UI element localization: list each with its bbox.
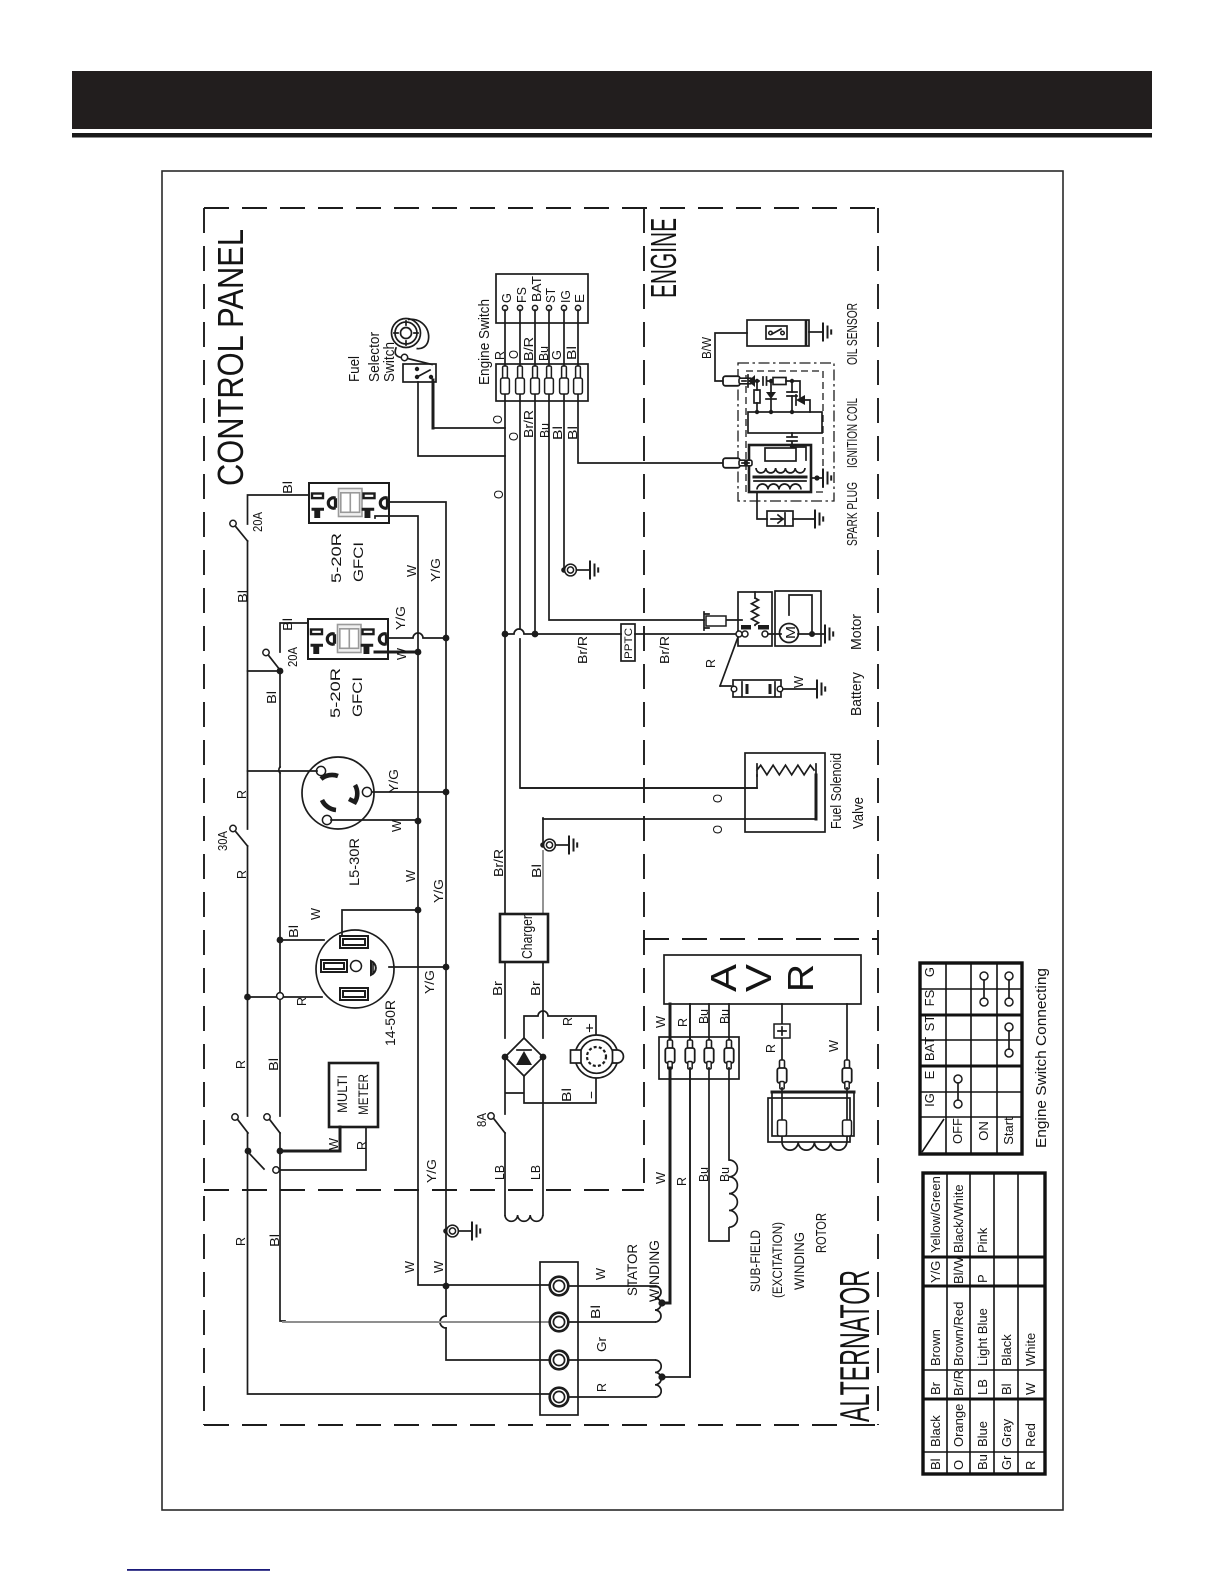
LB wires bbox=[505, 1057, 543, 1215]
PPTC box bbox=[621, 624, 635, 661]
svg-text:W: W bbox=[402, 1260, 417, 1273]
cap below module bbox=[787, 433, 806, 460]
svg-text:Gr: Gr bbox=[999, 1455, 1014, 1470]
fuel selector micro switch body bbox=[403, 364, 436, 382]
svg-text:Y/G: Y/G bbox=[428, 558, 443, 582]
svg-text:R: R bbox=[675, 1018, 690, 1027]
engine dashed bottom edge bbox=[644, 938, 878, 940]
svg-text:R: R bbox=[1023, 1461, 1038, 1470]
svg-text:R: R bbox=[703, 659, 718, 668]
svg-text:STATOR: STATOR bbox=[624, 1244, 640, 1296]
MM breaker right (Bl) bbox=[270, 1120, 280, 1133]
table2 outer border bbox=[923, 1173, 1045, 1474]
svg-text:R: R bbox=[233, 1060, 248, 1069]
GFCI outlet #2 bbox=[308, 619, 388, 659]
solenoid coil zigzag bbox=[757, 764, 816, 776]
svg-text:OIL SENSOR: OIL SENSOR bbox=[844, 303, 861, 365]
svg-text:Red: Red bbox=[1023, 1423, 1038, 1447]
14-50R outlet bbox=[316, 930, 394, 1008]
svg-text:Br/R: Br/R bbox=[657, 636, 672, 664]
svg-text:Bl/W: Bl/W bbox=[951, 1256, 966, 1284]
svg-text:GFCI: GFCI bbox=[350, 542, 366, 582]
svg-text:Yellow/Green: Yellow/Green bbox=[928, 1176, 943, 1253]
svg-text:Y/G: Y/G bbox=[422, 970, 437, 994]
ignition transformer bbox=[749, 445, 811, 492]
svg-text:Bl: Bl bbox=[264, 691, 279, 704]
svg-text:Bl: Bl bbox=[565, 426, 580, 440]
svg-text:MULTI: MULTI bbox=[334, 1075, 350, 1113]
wires below connector bbox=[690, 1068, 729, 1377]
svg-text:O: O bbox=[951, 1460, 966, 1470]
svg-text:Bl: Bl bbox=[550, 426, 565, 440]
8A breaker bbox=[494, 1119, 505, 1133]
svg-text:G: G bbox=[499, 293, 514, 303]
svg-text:LB: LB bbox=[492, 1165, 507, 1180]
GFCI2 feed wire bbox=[280, 623, 308, 1321]
svg-text:Switch: Switch bbox=[381, 342, 398, 382]
svg-text:Bl: Bl bbox=[564, 346, 579, 360]
svg-text:O: O bbox=[490, 415, 505, 424]
wire1 O bbox=[504, 395, 506, 914]
dashed top edge bbox=[204, 207, 878, 209]
fuse on Bu wire bbox=[704, 612, 726, 630]
svg-text:R: R bbox=[234, 790, 249, 799]
svg-text:Bu: Bu bbox=[696, 1167, 711, 1182]
svg-text:20A: 20A bbox=[250, 512, 265, 532]
header dark bar bbox=[72, 71, 1152, 129]
svg-text:Y/G: Y/G bbox=[928, 1261, 943, 1283]
solenoid leads bbox=[521, 775, 757, 788]
svg-text:Bl: Bl bbox=[266, 1058, 281, 1071]
W thick tap bbox=[662, 1004, 670, 1303]
svg-text:14-50R: 14-50R bbox=[382, 1000, 398, 1046]
node dots bbox=[277, 937, 284, 944]
alternator dashed bottom edge bbox=[204, 1424, 878, 1426]
svg-text:5-20R: 5-20R bbox=[328, 533, 344, 583]
svg-text:W: W bbox=[389, 819, 404, 832]
svg-text:Engine Switch: Engine Switch bbox=[476, 299, 493, 385]
svg-text:30A: 30A bbox=[215, 831, 230, 851]
svg-text:Brown: Brown bbox=[928, 1329, 943, 1366]
svg-text:METER: METER bbox=[355, 1074, 371, 1115]
svg-text:Light Blue: Light Blue bbox=[975, 1308, 990, 1366]
svg-text:Br: Br bbox=[928, 1381, 943, 1395]
svg-text:Br: Br bbox=[528, 980, 543, 996]
svg-text:W: W bbox=[431, 1260, 446, 1273]
svg-text:W: W bbox=[791, 675, 806, 688]
CDI module bbox=[723, 375, 822, 460]
svg-text:−: − bbox=[583, 1091, 599, 1099]
svg-text:BAT: BAT bbox=[922, 1037, 937, 1061]
GFCI outlet #1 bbox=[309, 483, 389, 523]
wires below charger bbox=[505, 962, 543, 1038]
wire5 G to ground bbox=[563, 395, 565, 567]
chassis ground on Y/G bbox=[443, 1228, 449, 1234]
svg-text:LB: LB bbox=[975, 1379, 990, 1395]
B/W wire bbox=[715, 333, 747, 381]
svg-text:W: W bbox=[826, 1039, 841, 1052]
svg-text:Orange: Orange bbox=[951, 1404, 966, 1447]
svg-text:Black: Black bbox=[928, 1415, 943, 1447]
battery R wire bbox=[720, 637, 738, 686]
svg-text:ON: ON bbox=[976, 1121, 991, 1141]
svg-text:IG: IG bbox=[922, 1093, 937, 1107]
svg-text:R: R bbox=[492, 351, 507, 360]
wire4 Bu bbox=[549, 395, 742, 620]
AVR wires down bbox=[690, 1004, 729, 1040]
vertical resistor bbox=[756, 381, 758, 412]
svg-text:IGNITION COIL: IGNITION COIL bbox=[844, 398, 861, 468]
fuel selector lever + roller bbox=[395, 348, 401, 358]
svg-text:Y/G: Y/G bbox=[431, 879, 446, 903]
svg-text:E: E bbox=[922, 1070, 937, 1079]
table1 inner horizontals bbox=[920, 989, 1022, 1117]
rectifier diamond bbox=[505, 1038, 543, 1076]
svg-text:ST: ST bbox=[922, 1015, 937, 1032]
header underline bbox=[72, 133, 1152, 138]
svg-text:Gray: Gray bbox=[999, 1418, 1014, 1447]
gray Bl wire + ground bullet at charger bbox=[542, 851, 544, 914]
GFCI2 right wires bbox=[389, 633, 446, 638]
svg-text:R: R bbox=[560, 1017, 575, 1026]
LB winding bbox=[505, 1215, 543, 1221]
oil sensor bbox=[747, 320, 831, 346]
svg-text:W: W bbox=[308, 907, 323, 920]
svg-text:Bl: Bl bbox=[280, 618, 295, 631]
svg-text:ALTERNATOR: ALTERNATOR bbox=[831, 1270, 878, 1422]
stator terminal block bbox=[540, 1262, 578, 1415]
svg-text:FS: FS bbox=[922, 989, 937, 1006]
MULTI METER box bbox=[329, 1063, 378, 1127]
fuel solenoid valve box bbox=[745, 753, 825, 832]
svg-text:O: O bbox=[506, 350, 521, 359]
svg-text:Bu: Bu bbox=[975, 1454, 990, 1470]
ignition inner dashed box bbox=[746, 371, 823, 492]
battery bbox=[731, 680, 783, 697]
ignition outer dash-dot box bbox=[738, 363, 834, 501]
spark plug bbox=[767, 511, 793, 526]
svg-text:W: W bbox=[404, 564, 419, 577]
diagonal cell bbox=[922, 1119, 944, 1152]
svg-text:Bl: Bl bbox=[267, 1234, 282, 1247]
svg-text:OFF: OFF bbox=[950, 1118, 965, 1144]
svg-text:Bl: Bl bbox=[999, 1383, 1014, 1395]
svg-text:V: V bbox=[738, 964, 779, 992]
svg-text:Engine Switch Connecting: Engine Switch Connecting bbox=[1033, 968, 1050, 1148]
svg-text:ENGINE: ENGINE bbox=[643, 218, 684, 298]
svg-text:CONTROL PANEL: CONTROL PANEL bbox=[210, 229, 251, 486]
node dots on W / Y-G verticals bbox=[443, 635, 450, 642]
svg-text:W: W bbox=[653, 1171, 668, 1184]
svg-text:Y/G: Y/G bbox=[386, 769, 401, 793]
svg-text:O: O bbox=[710, 825, 725, 834]
sub-field winding bbox=[729, 1160, 737, 1241]
svg-text:LB: LB bbox=[528, 1165, 543, 1180]
svg-text:IG: IG bbox=[558, 290, 573, 303]
14-50R wires bbox=[342, 910, 418, 936]
MM breaker left (R) bbox=[238, 1120, 248, 1133]
svg-text:Fuel Solenoid: Fuel Solenoid bbox=[828, 753, 845, 829]
table2 row lines (verticals in portrait) bbox=[947, 1173, 1018, 1474]
svg-text:Battery: Battery bbox=[848, 672, 865, 716]
svg-text:ST: ST bbox=[543, 288, 558, 303]
ignition input bullet bbox=[723, 458, 752, 468]
engine dashed right edge bbox=[877, 208, 879, 1425]
svg-text:W: W bbox=[403, 869, 418, 882]
svg-text:R: R bbox=[780, 964, 821, 992]
svg-text:Black/White: Black/White bbox=[951, 1184, 966, 1253]
Br/R horizontal to engine bbox=[505, 629, 739, 634]
svg-text:G: G bbox=[549, 350, 564, 360]
svg-text:Brown/Red: Brown/Red bbox=[951, 1302, 966, 1366]
L5-30R wires bbox=[248, 770, 318, 772]
AVR connector box bbox=[659, 1037, 739, 1079]
svg-text:Br: Br bbox=[490, 980, 505, 996]
svg-text:W: W bbox=[394, 647, 409, 660]
svg-text:R: R bbox=[234, 870, 249, 879]
GFCI1 right wires bbox=[389, 502, 550, 1360]
breaker 30A bbox=[236, 832, 248, 846]
brushes bbox=[778, 1120, 787, 1136]
svg-text:WINDING: WINDING bbox=[791, 1232, 807, 1290]
hop of x446 over gray y1322 bbox=[440, 1316, 446, 1328]
svg-text:(EXCITATION): (EXCITATION) bbox=[769, 1222, 785, 1298]
charger box bbox=[500, 914, 548, 962]
svg-text:M: M bbox=[783, 626, 798, 639]
svg-text:O: O bbox=[710, 794, 725, 803]
svg-text:Motor: Motor bbox=[848, 614, 865, 650]
rectifier to DC outlet wires bbox=[524, 1011, 596, 1038]
svg-text:R: R bbox=[763, 1044, 778, 1053]
rotor winding bbox=[782, 1136, 847, 1150]
svg-text:Bl: Bl bbox=[235, 590, 250, 603]
table2 column lines (horizontals) bbox=[923, 1370, 1045, 1452]
page frame bbox=[162, 171, 1063, 1510]
wire3 Br/R bbox=[534, 395, 536, 634]
svg-text:+: + bbox=[581, 1023, 597, 1033]
DC charging outlet bbox=[571, 1035, 624, 1078]
svg-text:Y/G: Y/G bbox=[424, 1159, 439, 1183]
svg-text:L5-30R: L5-30R bbox=[346, 838, 362, 886]
svg-text:E: E bbox=[572, 294, 587, 303]
module body bbox=[748, 412, 822, 433]
svg-text:Bl: Bl bbox=[588, 1305, 603, 1319]
svg-text:Bl: Bl bbox=[559, 1088, 574, 1102]
svg-text:W: W bbox=[1023, 1382, 1038, 1395]
svg-text:Valve: Valve bbox=[850, 797, 867, 829]
svg-text:W: W bbox=[326, 1137, 341, 1150]
brush box bbox=[768, 1098, 850, 1142]
vertical diode bbox=[770, 381, 772, 412]
gray Bl wire to stator bbox=[283, 1321, 550, 1323]
spark plug wire bbox=[757, 492, 767, 519]
svg-text:O: O bbox=[491, 490, 506, 499]
svg-text:Blue: Blue bbox=[975, 1421, 990, 1447]
svg-text:Start: Start bbox=[1001, 1117, 1016, 1145]
stator winding wires right bbox=[568, 1286, 655, 1397]
svg-text:PPTC: PPTC bbox=[623, 628, 635, 659]
svg-text:R: R bbox=[354, 1141, 369, 1150]
svg-text:Br/R: Br/R bbox=[491, 849, 506, 877]
engine switch terminal box 1 bbox=[496, 274, 588, 323]
breaker 20A #2 bbox=[269, 656, 280, 670]
stator winding coils bbox=[655, 1286, 661, 1322]
svg-text:Bu: Bu bbox=[717, 1009, 732, 1024]
svg-text:WINDING: WINDING bbox=[646, 1240, 662, 1302]
hop of x280 over y771 line bbox=[279, 767, 280, 773]
fuel selector switch cam bbox=[392, 319, 429, 349]
vertical cap bbox=[791, 381, 793, 412]
svg-text:5-20R: 5-20R bbox=[327, 668, 343, 718]
svg-text:Br/R: Br/R bbox=[951, 1370, 966, 1396]
R tap bbox=[662, 1004, 690, 1377]
motor bbox=[768, 591, 833, 646]
junction H 671 bbox=[248, 670, 281, 672]
svg-text:BAT: BAT bbox=[529, 276, 544, 302]
wires box1 to box2 bbox=[505, 310, 578, 366]
fuel selector wires bbox=[432, 380, 435, 428]
wire6 Bl to ignition bbox=[578, 395, 723, 463]
svg-text:GFCI: GFCI bbox=[349, 677, 365, 717]
control panel dashed left edge bbox=[203, 208, 205, 1425]
svg-text:R: R bbox=[594, 1383, 609, 1392]
svg-text:B/R: B/R bbox=[521, 337, 536, 361]
wire2 O bbox=[520, 395, 757, 788]
svg-text:Pink: Pink bbox=[975, 1227, 990, 1253]
wire Bl vertical x=247 (breaker chain) bbox=[248, 495, 551, 1394]
svg-text:Bu: Bu bbox=[696, 1009, 711, 1024]
svg-text:Y/G: Y/G bbox=[393, 606, 408, 630]
connector bullets bbox=[777, 1060, 786, 1089]
svg-text:R: R bbox=[233, 1237, 248, 1246]
svg-text:FS: FS bbox=[514, 287, 529, 303]
SCR bbox=[796, 395, 805, 405]
engine switch connector box 2 bbox=[496, 364, 588, 401]
svg-text:Bl: Bl bbox=[286, 925, 301, 938]
svg-text:Charger: Charger bbox=[519, 915, 536, 959]
node dot 280,671 bbox=[277, 668, 284, 675]
svg-text:R: R bbox=[674, 1177, 689, 1186]
svg-text:20A: 20A bbox=[285, 647, 300, 667]
rotor + wire from AVR bbox=[782, 1004, 847, 1062]
table1 inner verticals bbox=[946, 963, 997, 1154]
svg-text:Bu: Bu bbox=[717, 1167, 732, 1182]
AVR box bbox=[664, 955, 861, 1004]
svg-text:Gr: Gr bbox=[594, 1336, 609, 1352]
svg-text:Bl: Bl bbox=[928, 1458, 943, 1470]
svg-text:W: W bbox=[653, 1015, 668, 1028]
svg-text:8A: 8A bbox=[474, 1113, 489, 1127]
svg-text:SUB-FIELD: SUB-FIELD bbox=[747, 1230, 763, 1292]
svg-text:G: G bbox=[922, 967, 937, 977]
starter relay bbox=[738, 592, 772, 646]
svg-text:SPARK PLUG: SPARK PLUG bbox=[844, 482, 861, 546]
ignition ground bbox=[811, 477, 822, 479]
svg-text:R: R bbox=[294, 997, 309, 1006]
svg-text:Br/R: Br/R bbox=[521, 410, 536, 438]
svg-text:Bl: Bl bbox=[280, 481, 295, 494]
svg-text:W: W bbox=[593, 1267, 608, 1280]
svg-text:P: P bbox=[975, 1274, 990, 1283]
terminal circles bbox=[502, 305, 507, 310]
svg-text:O: O bbox=[506, 432, 521, 441]
L5-30R outlet bbox=[302, 757, 374, 829]
table1 outer border bbox=[920, 963, 1022, 1154]
svg-text:ROTOR: ROTOR bbox=[813, 1213, 830, 1253]
svg-text:Black: Black bbox=[999, 1334, 1014, 1366]
alternator dashed top edge bbox=[204, 1189, 644, 1191]
svg-text:White: White bbox=[1023, 1333, 1038, 1366]
control panel / engine dashed divider bbox=[643, 208, 645, 1190]
diode 1 bbox=[748, 375, 755, 387]
MM wires bbox=[280, 1127, 340, 1151]
jumpers bbox=[980, 972, 988, 980]
svg-text:Fuel: Fuel bbox=[346, 356, 363, 382]
footer link line bbox=[127, 1569, 270, 1571]
plus box bbox=[774, 1024, 790, 1038]
svg-text:Br/R: Br/R bbox=[575, 636, 590, 664]
svg-text:B/W: B/W bbox=[699, 336, 714, 359]
series resistor bbox=[773, 378, 786, 385]
breaker 20A #1 bbox=[236, 527, 248, 541]
svg-text:Bl: Bl bbox=[529, 864, 544, 878]
